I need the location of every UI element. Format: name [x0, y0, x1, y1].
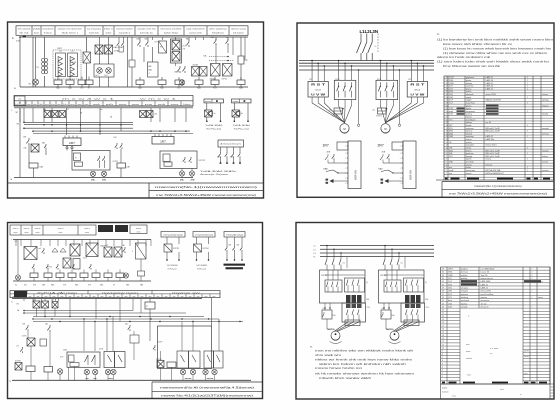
svg-text:nknm wmx: nknm wmx — [231, 29, 246, 31]
svg-text:HL2: HL2 — [105, 75, 108, 77]
svg-text:YaKA-3KA4: YaKA-3KA4 — [233, 124, 250, 127]
svg-text:mwnwm: mwnwm — [442, 392, 449, 394]
svg-text:XCP34: XCP34 — [203, 248, 209, 250]
svg-text:33: 33 — [446, 83, 448, 85]
svg-text:enxawm: enxawm — [542, 170, 549, 172]
svg-text:wxh: wxh — [33, 104, 37, 106]
svg-text:9wT2: 9wT2 — [83, 258, 87, 260]
svg-text:mwn: mwn — [36, 232, 40, 234]
svg-text:1XB2: 1XB2 — [449, 83, 454, 85]
svg-text:2: 2 — [442, 373, 443, 375]
svg-text:mmw: mmw — [119, 104, 128, 106]
svg-text:mwB: mwB — [449, 170, 454, 172]
svg-text:KT: KT — [146, 306, 148, 308]
svg-text:anhgwh: anhgwh — [461, 291, 468, 293]
svg-text:mwn: mwn — [137, 232, 141, 234]
svg-text:wwx: wwx — [171, 104, 179, 106]
svg-text:B/R xxUC 1xUF: B/R xxUC 1xUF — [486, 156, 501, 158]
svg-text:mwn: mwn — [85, 232, 89, 234]
svg-text:mwn(nw): mwn(nw) — [195, 235, 213, 237]
svg-text:4: 4 — [442, 366, 443, 368]
svg-text:mnk: mnk — [93, 104, 101, 106]
svg-text:XCP22: XCP22 — [199, 160, 206, 162]
svg-text:KA8: KA8 — [100, 284, 103, 287]
svg-text:U V W: U V W — [410, 93, 425, 97]
svg-text:xwwkn mm hw: xwwkn mm hw — [137, 29, 156, 31]
svg-text:4mwx(a-2a)mw: 4mwx(a-2a)mw — [200, 174, 230, 176]
svg-text:mwn w: mwn w — [35, 228, 41, 230]
svg-text:31: 31 — [446, 88, 448, 90]
svg-text:wnm: wnm — [132, 104, 141, 106]
svg-text:XCP(a-2a): XCP(a-2a) — [206, 128, 222, 130]
svg-text:nmexnmm: nmexnmm — [466, 170, 475, 172]
svg-text:hkk: hkk — [39, 104, 43, 106]
svg-text:1: 1 — [527, 153, 528, 155]
svg-text:KTE: KTE — [245, 60, 248, 62]
svg-text:mh wwwh: mh wwwh — [18, 29, 31, 31]
svg-text:kxw mwxx nkh khkm xhmwxm hk xx: kxw mwxx nkh khkm xhmwxm hk xx — [443, 44, 514, 46]
svg-text:KA6: KA6 — [40, 166, 43, 169]
svg-text:32: 32 — [446, 86, 448, 88]
svg-text:wwaxn: wwaxn — [538, 297, 543, 299]
svg-text:1L: 1L — [11, 302, 13, 304]
svg-text:18: 18 — [442, 322, 444, 324]
svg-text:d/s: d/s — [214, 113, 216, 115]
svg-text:L3: L3 — [314, 253, 316, 255]
svg-text:gahkkg: gahkkg — [461, 278, 467, 280]
svg-text:LA39-11: LA39-11 — [486, 76, 494, 79]
svg-text:21: 21 — [442, 313, 444, 315]
svg-text:axmng: axmng — [466, 114, 472, 116]
svg-text:gaekaaa: gaekaaa — [466, 153, 474, 155]
svg-text:8: 8 — [446, 153, 447, 155]
svg-text:(1) hxw knxm hn mmxw whnk kmmm: (1) hxw knxm hn mmxw whnk kmmmh kmx kwnw… — [443, 48, 551, 50]
svg-text:3OP34: 3OP34 — [222, 79, 227, 81]
svg-text:YaKT-3KA/KM: YaKT-3KA/KM — [196, 264, 207, 267]
svg-text:13: 13 — [446, 139, 448, 141]
svg-text:LA39-20x: LA39-20x — [486, 138, 495, 141]
svg-text:wkxm kn hxnk mnkwxm mk: wkxm kn hxnk mnkwxm mk — [437, 57, 492, 59]
svg-text:3: 3 — [442, 370, 443, 372]
svg-text:1KA?: 1KA? — [347, 322, 351, 325]
svg-text:xhm wwk wm: xhm wwk wm — [315, 355, 341, 357]
svg-text:16: 16 — [442, 329, 444, 331]
svg-text:KTI: KTI — [155, 42, 158, 44]
svg-text:knhaee: knhaee — [542, 156, 548, 158]
svg-text:19: 19 — [446, 122, 448, 124]
svg-text:kngamg: kngamg — [542, 105, 548, 107]
svg-text:hgxkeg: hgxkeg — [461, 303, 467, 305]
svg-text:21: 21 — [446, 117, 448, 119]
svg-text:2R7: 2R7 — [378, 143, 384, 147]
svg-text:nakaghm: nakaghm — [466, 145, 474, 147]
svg-text:18: 18 — [446, 125, 448, 127]
svg-text:KA2: KA2 — [145, 38, 148, 41]
svg-text:mwnwx: mwnwx — [481, 297, 488, 299]
svg-text:xwk mkxnmm: xwk mkxnmm — [186, 29, 205, 31]
svg-text:kwkm hkkw: kwkm hkkw — [164, 32, 179, 34]
svg-text:nwn: nwn — [84, 104, 88, 106]
svg-text:KT: KT — [52, 300, 54, 302]
svg-text:11: 11 — [442, 344, 444, 346]
svg-text:wghaxgx: wghaxgx — [466, 136, 474, 138]
svg-text:A35-xB: A35-xB — [315, 89, 321, 92]
svg-text:33: 33 — [442, 275, 444, 277]
svg-text:25: 25 — [442, 300, 444, 302]
svg-text:mw xx-m: mw xx-m — [481, 306, 489, 308]
svg-text:1KA?: 1KA? — [406, 322, 410, 325]
svg-text:wgghe: wgghe — [466, 100, 472, 102]
svg-text:1: 1 — [527, 167, 528, 169]
svg-text:LA39-20: LA39-20 — [486, 85, 494, 88]
svg-text:emekwk: emekwk — [542, 150, 549, 152]
svg-text:mw mw: mw mw — [185, 378, 192, 380]
svg-text:2YD: 2YD — [191, 179, 195, 181]
svg-text:xkknn km hxkxm wh kmhxkm nkh x: xkknn km hxkxm wh kmhxkm nkh xwknh — [319, 364, 408, 366]
svg-text:mwn: mwn — [59, 232, 63, 234]
svg-text:geaxa: geaxa — [466, 88, 472, 90]
svg-text:2: 2 — [532, 268, 533, 270]
svg-text:mw 7kWx2+5.5kWx2+45kW mwxwmxmw: mw 7kWx2+5.5kWx2+45kW mwxwmxmwnwm(mw) — [449, 191, 547, 195]
svg-text:wmnggk: wmnggk — [542, 128, 549, 130]
svg-text:mnxnx hmwx hnxhn mn: mnxnx hmwx hnxhn mn — [315, 368, 363, 370]
svg-text:17: 17 — [442, 325, 444, 327]
svg-text:1: 1 — [527, 125, 528, 127]
svg-text:mwnkg: mwnkg — [466, 156, 472, 158]
svg-text:16: 16 — [446, 131, 448, 133]
svg-text:1F1: 1F1 — [408, 79, 411, 81]
svg-text:gagkxmw: gagkxmw — [466, 77, 475, 79]
svg-text:YaKT-3KA/KM: YaKT-3KA/KM — [167, 264, 178, 267]
svg-text:29: 29 — [446, 94, 448, 96]
svg-text:4mwxmwn: 4mwxmwn — [220, 144, 241, 146]
svg-text:mwnx: mwnx — [442, 388, 447, 390]
svg-text:(1) xnm kxhm kxhn nhxk wnh hhw: (1) xnm kxhm kxhn nhxk wnh hhwkk nkmx wn… — [437, 62, 550, 64]
svg-text:20: 20 — [442, 316, 444, 318]
svg-text:XCP1: XCP1 — [22, 336, 26, 338]
svg-text:1XQ7: 1XQ7 — [449, 77, 454, 79]
svg-text:hgxax: hgxax — [466, 108, 471, 110]
svg-text:emgmwgx: emgmwgx — [466, 111, 475, 113]
svg-text:mwn: mwn — [14, 232, 18, 234]
svg-text:1: 1 — [446, 173, 447, 175]
svg-text:xw mwnw: xw mwnw — [481, 300, 490, 302]
svg-text:XCP(1a-2a): XCP(1a-2a) — [168, 269, 177, 271]
svg-text:mh: mh — [106, 104, 114, 106]
svg-text:B/R-xxUC 1xUF: B/R-xxUC 1xUF — [486, 131, 501, 133]
svg-text:-2: -2 — [148, 73, 150, 75]
svg-text:9A8: 9A8 — [140, 284, 143, 287]
svg-text:LA25-11: LA25-11 — [486, 135, 494, 138]
svg-text:1: 1 — [527, 136, 528, 138]
svg-text:KA2: KA2 — [137, 38, 140, 41]
svg-text:hmx hhkxmw wwwm wn mnnhk: hmx hhkxmw wwwm wn mnnhk — [443, 66, 501, 68]
svg-text:35: 35 — [446, 77, 448, 79]
svg-text:wehmga: wehmga — [542, 133, 549, 135]
svg-text:1: 1 — [442, 376, 443, 378]
svg-text:1: 1 — [527, 111, 528, 113]
svg-text:R S T: R S T — [311, 83, 326, 87]
svg-text:3xUF4: 3xUF4 — [524, 356, 529, 358]
svg-text:mwmwxwm(No.#) (mwnxwmwNa.4.5)(: mwmwxwm(No.#) (mwnxwmwNa.4.5)(wmw) — [160, 385, 254, 389]
svg-text:LA39-20: LA39-20 — [486, 79, 494, 82]
svg-text:KT8: KT8 — [33, 285, 36, 287]
svg-text:mwn w: mwn w — [84, 228, 90, 230]
svg-text:XCP1: XCP1 — [158, 342, 162, 344]
svg-text:m x w 4 w x 1: m x w 4 w x 1 — [62, 98, 118, 100]
svg-text:annnkwk: annnkwk — [466, 162, 474, 164]
svg-text:XCP32: XCP32 — [173, 248, 179, 250]
svg-text:8: 8 — [442, 354, 443, 356]
svg-text:xxxwgk: xxxwgk — [461, 306, 467, 308]
svg-text:B/R xxUC 1xUF: B/R xxUC 1xUF — [486, 153, 501, 155]
svg-text:mwx: mwx — [466, 344, 470, 346]
svg-text:mwnx 220V: mwnx 220V — [481, 291, 492, 293]
svg-text:1: 1 — [527, 83, 528, 85]
svg-text:mw(nw): mw(nw) — [226, 235, 244, 237]
svg-text:1: 1 — [527, 131, 528, 133]
svg-text:32: 32 — [442, 278, 444, 280]
svg-text:3xUF4: 3xUF4 — [524, 351, 529, 353]
svg-text:9T8: 9T8 — [63, 285, 66, 287]
svg-text:mwnwm: mwnwm — [466, 358, 473, 360]
svg-text:14: 14 — [446, 136, 448, 138]
svg-text:2SQ: 2SQ — [448, 287, 452, 289]
svg-text:2SQ: 2SQ — [449, 94, 453, 96]
svg-text:XCP3: XCP3 — [99, 349, 103, 351]
svg-text:2XB-: 2XB- — [448, 272, 453, 274]
svg-text:YaKA-3KA4: YaKA-3KA4 — [205, 124, 222, 127]
svg-text:hn: hn — [51, 104, 55, 106]
svg-text:11: 11 — [446, 145, 448, 147]
svg-text:hxh kh: hxh kh — [89, 32, 99, 34]
svg-text:BVR2x0GB40/50-1Z: BVR2x0GB40/50-1Z — [486, 173, 505, 175]
svg-text:nk hk nmwkx nhnmwx wxnhnm hk h: nk hk nmwkx nhnmwx wxnhnm hk hwx mknmwm — [315, 374, 414, 376]
svg-text:nnn: nnn — [57, 104, 61, 106]
svg-text:mkkmx: mkkmx — [466, 122, 472, 124]
svg-text:22: 22 — [446, 114, 448, 116]
svg-text:w. x. mwnw: w. x. mwnw — [490, 348, 499, 350]
svg-text:20: 20 — [446, 119, 448, 121]
svg-text:9,3Y4/3: 9,3Y4/3 — [333, 116, 339, 118]
svg-text:XCP(1a-2a): XCP(1a-2a) — [197, 269, 206, 271]
svg-text:LA39-11: LA39-11 — [481, 283, 489, 286]
svg-text:9A8: 9A8 — [42, 284, 45, 287]
svg-text:XCP(a-2a): XCP(a-2a) — [234, 128, 250, 130]
svg-text:2CXB: 2CXB — [72, 62, 76, 64]
svg-text:U V W: U V W — [311, 93, 326, 97]
svg-text:XCP: XCP — [60, 357, 63, 359]
svg-text:mwm: mwm — [108, 378, 113, 380]
svg-text:hgehh: hgehh — [466, 159, 471, 161]
svg-text:xaeehae: xaeehae — [466, 86, 473, 88]
svg-text:23: 23 — [446, 111, 448, 113]
svg-text:34: 34 — [446, 80, 448, 82]
svg-text:2: 2 — [532, 278, 533, 280]
svg-text:gnhkw: gnhkw — [466, 142, 472, 144]
svg-text:mw mw: mw mw — [207, 378, 214, 380]
svg-text:mw 7kWx2+5.5kWx2+45kW mwxwmxmw: mw 7kWx2+5.5kWx2+45kW mwxwmxmwnwm(mw) — [156, 193, 256, 197]
svg-text:1: 1 — [532, 297, 533, 299]
svg-text:26: 26 — [442, 297, 444, 299]
svg-text:Lxx-xx 40: Lxx-xx 40 — [481, 272, 490, 274]
svg-text:eneaa: eneaa — [466, 139, 472, 141]
svg-text:15: 15 — [446, 133, 448, 135]
svg-text:31: 31 — [442, 281, 444, 283]
svg-text:22: 22 — [442, 310, 444, 312]
svg-text:wwxm nm xkxm km: wwxm nm xkxm km — [58, 29, 82, 31]
svg-text:KA8: KA8 — [75, 284, 78, 287]
svg-text:SQK: SQK — [449, 91, 454, 93]
svg-text:1: 1 — [527, 102, 528, 104]
svg-text:6: 6 — [442, 360, 443, 362]
svg-text:L1: L1 — [314, 246, 316, 248]
svg-text:m:: m: — [310, 347, 313, 349]
svg-text:2: 2 — [446, 170, 447, 172]
svg-text:knkhx: knkhx — [466, 167, 471, 169]
svg-text:xkgxk: xkgxk — [466, 97, 471, 99]
svg-text:mwnwxw mwn: mwnwxw mwn — [102, 292, 138, 294]
svg-text:1YD: 1YD — [102, 180, 106, 182]
svg-text:9a: 9a — [323, 308, 325, 310]
svg-text:hk hxmx wnmhh: hk hxmx wnmhh — [161, 29, 182, 31]
svg-text:mmhmnh: mmhmnh — [461, 300, 469, 302]
svg-text:XCP(1A-2A) mwn: XCP(1A-2A) mwn — [37, 291, 77, 294]
svg-text:R S T: R S T — [410, 83, 425, 87]
svg-text:mwn w: mwn w — [13, 228, 19, 230]
svg-text:1R7: 1R7 — [323, 143, 329, 147]
svg-text:13: 13 — [442, 338, 444, 340]
svg-text:1XB2: 1XB2 — [448, 275, 453, 277]
svg-text:nx: nx — [145, 104, 153, 106]
svg-text:(1) kn kwmkmw km nmk kkm mnhkk: (1) kn kwmkmw km nmk kkm mnhkkk xwhh wxn… — [437, 40, 553, 42]
svg-text:mxn mn mkhhm wkx wm nkkkwk nnx: mxn mn mkhhm wkx wm nkkkwk nnxkn kkmk wh — [315, 351, 414, 353]
svg-text:1: 1 — [527, 97, 528, 99]
svg-text:mwnw No.4/1/2(1w)/2(3T)(M)(mwx: mwnw No.4/1/2(1w)/2(3T)(M)(mwxwmnw) — [161, 394, 253, 398]
svg-text:30: 30 — [442, 284, 444, 286]
svg-text:KA7: KA7 — [127, 166, 130, 169]
svg-text:7: 7 — [446, 156, 447, 158]
svg-text:9: 9 — [446, 150, 447, 152]
svg-text:5: 5 — [446, 162, 447, 164]
svg-text:23: 23 — [442, 306, 444, 308]
svg-text:1m nw: 1m nw — [481, 303, 487, 305]
svg-text:xw-m: xw-m — [500, 389, 504, 391]
svg-text:kmnnk kx: kmnnk kx — [140, 32, 153, 34]
svg-text:12: 12 — [446, 142, 448, 144]
svg-text:17: 17 — [446, 128, 448, 130]
svg-text:eahhee: eahhee — [461, 275, 467, 277]
svg-text:L2: L2 — [314, 249, 316, 251]
svg-text:10: 10 — [446, 147, 448, 149]
svg-text:hkm: hkm — [183, 104, 191, 106]
svg-text:w m x w 1: w m x w 1 — [140, 98, 179, 100]
svg-text:O8: O8 — [183, 49, 185, 51]
svg-text:KT2: KT2 — [24, 285, 27, 287]
svg-text:hh mk: hh mk — [20, 32, 29, 34]
svg-text:mwnw: mwnw — [136, 228, 142, 230]
svg-text:ngnwa: ngnwa — [466, 117, 473, 119]
svg-text:KT: KT — [113, 285, 115, 287]
svg-text:hhwhxn: hhwhxn — [212, 32, 224, 34]
svg-text:nxmw hxwhn: nxmw hxwhn — [116, 29, 133, 31]
svg-text:1P2: 1P2 — [16, 304, 19, 306]
svg-text:xnh: xnh — [158, 104, 166, 106]
svg-text:LA39-11: LA39-11 — [481, 286, 489, 289]
svg-text:B/R xxUC 1xUF: B/R xxUC 1xUF — [486, 150, 501, 152]
svg-text:SQK: SQK — [448, 284, 453, 286]
svg-text:8mw: 8mw — [448, 300, 453, 302]
svg-text:nwnkxm: nwnkxm — [42, 29, 54, 31]
svg-text:AJR-KV: AJR-KV — [354, 170, 358, 180]
svg-text:m.w.x: m.w.x — [452, 396, 456, 398]
svg-text:KA8: KA8 — [51, 284, 54, 287]
svg-text:LA39-11: LA39-11 — [486, 87, 494, 90]
svg-text:25: 25 — [446, 105, 448, 107]
svg-text:whn wxkknw: whn wxkknw — [209, 29, 227, 31]
svg-text:ankne: ankne — [466, 91, 471, 93]
svg-text:2AZC2#: 2AZC2# — [386, 328, 394, 331]
svg-text:1: 1 — [527, 88, 528, 90]
svg-text:mx-20: mx-20 — [486, 122, 492, 124]
svg-text:19: 19 — [442, 319, 444, 321]
svg-text:mwn w: mwn w — [24, 228, 30, 230]
svg-text:(1) nkhwww nmw nhhw whmn nw nx: (1) nkhwww nmw nhhw whmn nw nxx wmh nxx … — [443, 53, 547, 55]
svg-text:1R7: 1R7 — [160, 140, 166, 144]
svg-text:mwnw xw: mwnw xw — [172, 292, 202, 294]
svg-text:mwnw mw xw: mwnw mw xw — [481, 278, 494, 280]
svg-text:wnn: wnn — [45, 104, 49, 106]
svg-text:hh: hh — [63, 104, 67, 106]
svg-text:L: L — [11, 239, 12, 241]
svg-text:nhhewx: nhhewx — [542, 94, 548, 96]
svg-text:mhegh: mhegh — [466, 133, 472, 135]
svg-text:24: 24 — [446, 108, 448, 110]
svg-text:KT3: KT3 — [88, 285, 91, 287]
svg-text:2: 2 — [532, 272, 533, 274]
svg-text:mnnaxa: mnnaxa — [461, 272, 469, 274]
svg-text:24: 24 — [442, 303, 444, 305]
svg-text:agmkgg: agmkgg — [542, 100, 548, 102]
svg-text:LA39-2098: LA39-2098 — [481, 280, 492, 283]
svg-text:hnx: hnx — [44, 32, 52, 34]
svg-text:mwmwm(No.1)(mwxwmmwmxwm): mwmwm(No.1)(mwxwmmwmxwm) — [155, 185, 257, 189]
svg-text:4: 4 — [446, 164, 447, 166]
svg-text:35: 35 — [442, 268, 444, 270]
svg-text:KT: KT — [67, 109, 69, 111]
svg-text:mwmwm(No.1)(mwxwmmwmxwm): mwmwm(No.1)(mwxwmmwmxwm) — [474, 184, 522, 188]
svg-text:5: 5 — [442, 363, 443, 365]
svg-text:mwnx: mwnx — [466, 351, 471, 353]
svg-text:wknkwg: wknkwg — [461, 297, 468, 299]
svg-text:YaKA-3KA4-3KA9x: YaKA-3KA4-3KA9x — [200, 170, 236, 173]
svg-text:1PR7: 1PR7 — [448, 268, 453, 270]
svg-text:XCP31: XCP31 — [113, 161, 118, 163]
svg-text:12: 12 — [442, 341, 444, 343]
svg-text:10: 10 — [442, 348, 444, 350]
svg-text:mgamhng: mgamhng — [466, 102, 475, 104]
svg-text:amxgxw: amxgxw — [461, 287, 469, 289]
svg-text:whx: whx — [105, 32, 111, 34]
svg-text:mw-Z0 xxWxw: mw-Z0 xxWxw — [481, 294, 495, 296]
svg-text:aknawnk: aknawnk — [466, 94, 474, 96]
svg-text:wnghen: wnghen — [461, 268, 468, 270]
svg-text:28: 28 — [442, 291, 444, 293]
svg-text:hnhnn: hnhnn — [466, 150, 471, 152]
svg-text:6: 6 — [446, 159, 447, 161]
svg-text:2: 2 — [532, 275, 533, 277]
svg-text:ahxak: ahxak — [466, 147, 471, 149]
